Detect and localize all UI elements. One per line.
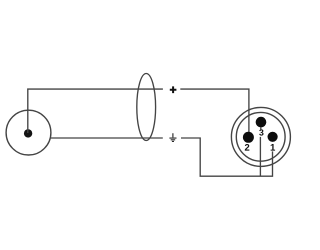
wire hot: plus to XLR pin 2 bbox=[180, 89, 249, 132]
wire ground branch to XLR pin 3 bbox=[259, 137, 261, 176]
XLR connector J2 inner ring bbox=[236, 112, 285, 161]
cable shield ellipse bbox=[137, 74, 156, 141]
XLR pin 2 bbox=[243, 132, 254, 143]
XLR pin 1 bbox=[268, 132, 278, 142]
pin label 2 bbox=[245, 144, 250, 151]
XLR connector J2 outer shell bbox=[231, 107, 290, 166]
pin label 1 bbox=[271, 144, 275, 151]
XLR pin 3 bbox=[256, 117, 267, 128]
wire ground: symbol to corner and under XLR bbox=[181, 138, 273, 176]
plus polarity symbol bbox=[170, 86, 177, 93]
RCA connector J1 body bbox=[6, 110, 51, 155]
RCA connector J1 center pin bbox=[24, 129, 32, 137]
wire ground: J1 sleeve right to ground symbol bbox=[50, 137, 162, 139]
ground symbol bbox=[169, 133, 176, 141]
pin label 3 bbox=[259, 129, 263, 135]
wire hot: J1 pin up then right to plus bbox=[28, 89, 163, 133]
wire stub pin 3 to label bbox=[260, 127, 262, 129]
